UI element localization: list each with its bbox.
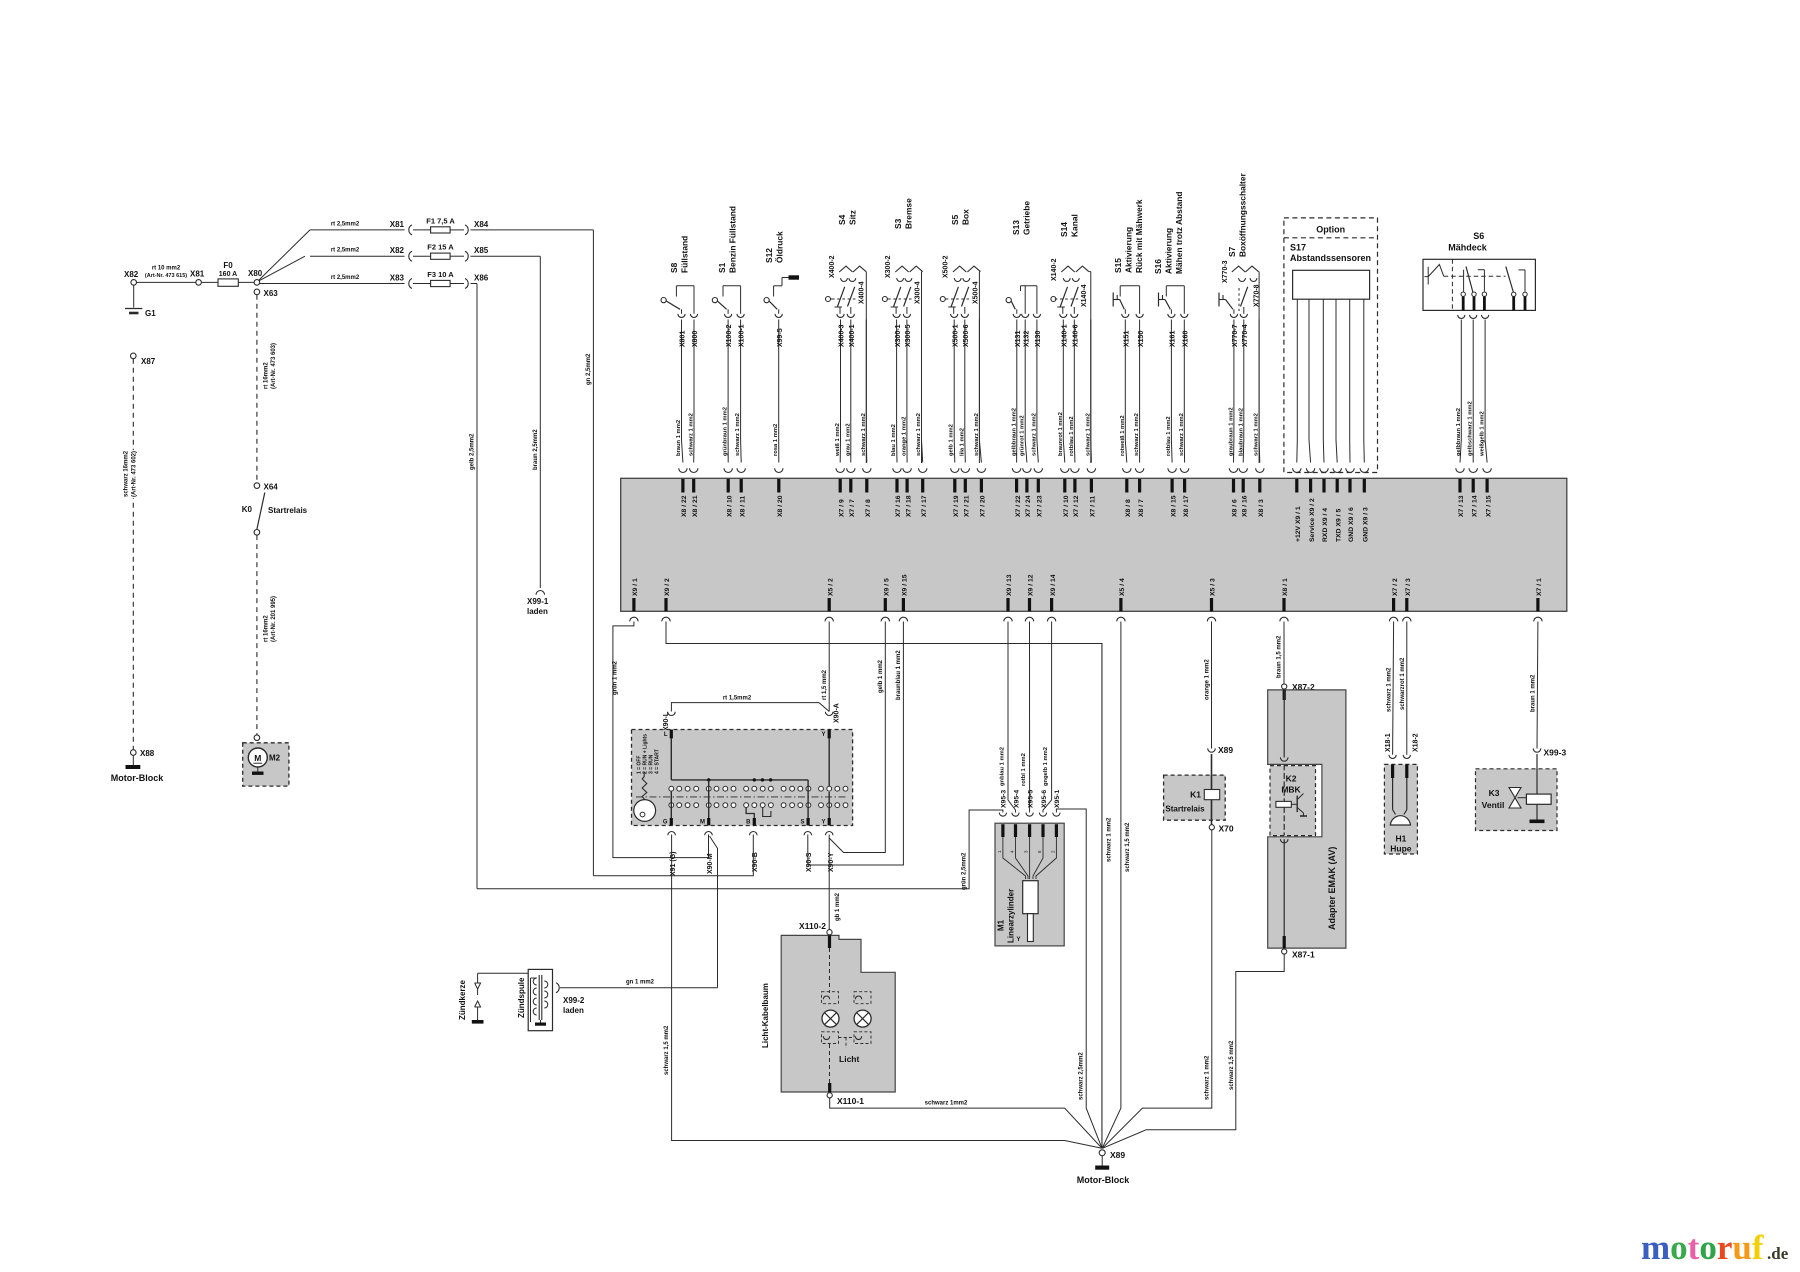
ignition internal B link — [746, 808, 754, 818]
lamp L2 — [854, 1010, 871, 1027]
pin X9/12 bottom of control unit — [1028, 598, 1031, 611]
wire schwarz 1 mm2 down to pin — [1037, 320, 1038, 463]
ignition contact lower — [706, 803, 711, 808]
wire X5/4 to X89 schwarz 1,5mm2 — [1102, 622, 1121, 1149]
svg-text:(Art-Nr. 473 602): (Art-Nr. 473 602) — [132, 451, 138, 497]
svg-text:rotweiß 1 mm2: rotweiß 1 mm2 — [1120, 415, 1126, 456]
pin X8/20 top of control unit — [775, 468, 783, 472]
svg-text:Aktivierung: Aktivierung — [1124, 227, 1134, 273]
S6 divider dashed — [1451, 259, 1453, 310]
wire gelb 1 mm2 down to pin — [953, 320, 956, 463]
connector X70 — [1209, 825, 1214, 830]
svg-text:X7 / 7: X7 / 7 — [849, 499, 856, 517]
svg-text:Getriebe: Getriebe — [1022, 201, 1032, 235]
ignition bus junction — [769, 778, 772, 781]
ignition contact upper — [669, 786, 674, 791]
M1 internal wires — [1003, 837, 1026, 879]
pin GND X9/3 top of control unit — [1360, 468, 1368, 472]
svg-text:X500-6: X500-6 — [963, 324, 970, 347]
svg-text:Hupe: Hupe — [1390, 844, 1412, 854]
wire weißgelb 1 mm2 down to pin — [1485, 320, 1487, 463]
svg-text:Startrelais: Startrelais — [1165, 805, 1205, 814]
svg-text:X87-1: X87-1 — [1292, 950, 1315, 960]
pin X7/19 top of control unit — [951, 468, 959, 472]
pin X7/20 top of control unit — [977, 468, 985, 472]
wire K0-M2 rt 16mm2 dashed — [256, 535, 258, 735]
actuator M1 box — [995, 823, 1064, 946]
wire X7/3 to X18-2 schwarzrot — [1406, 622, 1408, 755]
svg-text:X18-1: X18-1 — [1385, 733, 1392, 752]
svg-text:X7 / 3: X7 / 3 — [1405, 578, 1412, 596]
svg-text:Füllstand: Füllstand — [680, 236, 690, 273]
svg-text:G: G — [663, 820, 668, 826]
svg-text:X500-1: X500-1 — [952, 324, 959, 347]
ignition contact lower — [769, 803, 774, 808]
svg-text:Motor-Block: Motor-Block — [1077, 1175, 1130, 1185]
pin X9/5 bottom of control unit — [884, 598, 887, 611]
wire X95-1 ground schwarz 2,5mm2 — [1056, 809, 1102, 1148]
connector X82 — [131, 280, 137, 286]
pin X8/16 top of control unit — [1239, 468, 1247, 472]
pin RXD X9/4 top of control unit — [1320, 468, 1328, 472]
svg-text:X64: X64 — [264, 483, 279, 492]
svg-text:schwarz 1mm2: schwarz 1mm2 — [925, 1101, 968, 1107]
connector X90-L — [668, 712, 676, 716]
svg-text:X82: X82 — [124, 270, 139, 279]
svg-text:Option: Option — [1316, 225, 1345, 235]
svg-text:Bremse: Bremse — [904, 198, 914, 229]
svg-text:M1: M1 — [997, 919, 1006, 931]
pin X7/16 top of control unit — [893, 468, 901, 472]
svg-text:4 = START: 4 = START — [655, 749, 661, 774]
svg-text:(Art-Nr. 473 615): (Art-Nr. 473 615) — [145, 273, 187, 279]
svg-text:X130: X130 — [1035, 331, 1042, 347]
adapter EMAK box — [1268, 690, 1346, 948]
svg-text:braunrot 1 mm2: braunrot 1 mm2 — [1058, 412, 1064, 456]
svg-text:Boxöffnungsschalter: Boxöffnungsschalter — [1238, 173, 1248, 257]
wire X90-L to X90-A rt 1,5mm2 — [671, 703, 829, 712]
S6 connector — [1482, 315, 1489, 319]
ignition pin L — [670, 730, 673, 739]
svg-text:schwarz 1 mm2: schwarz 1 mm2 — [735, 413, 741, 456]
wire X99-2 gn 1mm2 — [560, 987, 718, 989]
svg-text:X85: X85 — [474, 246, 489, 255]
wire gelbbraun 1 mm2 down to pin — [1016, 320, 1018, 463]
pin X7/12 top of control unit — [1071, 468, 1079, 472]
svg-text:X99-5: X99-5 — [777, 328, 784, 347]
svg-text:schwarz 2,5mm2: schwarz 2,5mm2 — [1079, 1052, 1085, 1100]
svg-text:X7 / 20: X7 / 20 — [980, 495, 987, 517]
svg-text:L: L — [664, 732, 668, 738]
wire braun 2,5mm2 from X85 down — [539, 256, 541, 588]
mower deck box S6 — [1423, 259, 1535, 310]
svg-text:M: M — [700, 820, 705, 826]
ignition pin Y top — [828, 730, 831, 739]
ignition switch box — [632, 730, 853, 826]
S6 pin — [1524, 297, 1527, 311]
wire grünbraun 1 mm2 down to pin — [727, 320, 729, 463]
svg-text:weiß 1 mm2: weiß 1 mm2 — [835, 423, 841, 457]
wire X7/2 to X18-1 schwarz 1mm2 — [1393, 622, 1394, 755]
pin X8/8 top of control unit — [1123, 468, 1131, 472]
wire schwarz 1 mm2 down to pin — [740, 320, 743, 463]
svg-text:M2: M2 — [269, 754, 281, 763]
svg-text:Rück mit Mähwerk: Rück mit Mähwerk — [1134, 199, 1144, 273]
svg-text:schwarz 1 mm2: schwarz 1 mm2 — [1387, 667, 1393, 712]
svg-text:rotblau 1 mm2: rotblau 1 mm2 — [1166, 416, 1172, 456]
wire through K1 — [1211, 754, 1213, 825]
svg-text:X90-S: X90-S — [806, 852, 813, 872]
connector X18-1 — [1389, 755, 1396, 759]
connector X90-Y — [825, 832, 833, 836]
svg-text:X801: X801 — [680, 331, 687, 347]
wire lila 1 mm2 down to pin — [964, 320, 967, 463]
wire X9/2 ground to X89 — [666, 622, 1102, 1149]
ignition contact upper — [843, 786, 848, 791]
ground Motor-Block left — [132, 755, 134, 765]
svg-text:B: B — [746, 820, 751, 826]
ignition contact lower — [835, 803, 840, 808]
svg-text:X770-4: X770-4 — [1242, 324, 1249, 347]
ignition contact upper — [723, 786, 728, 791]
svg-text:X8 / 16: X8 / 16 — [1241, 495, 1248, 517]
connector X87 — [131, 353, 137, 359]
ignition contact lower — [843, 803, 848, 808]
pin GND X9/6 top of control unit — [1346, 468, 1354, 472]
wire schwarz 1 mm2 down to pin — [922, 320, 923, 463]
svg-text:X7 / 23: X7 / 23 — [1037, 495, 1044, 517]
svg-text:grau 1 mm2: grau 1 mm2 — [845, 423, 851, 456]
fuse row F1 7,5A X81-X84 — [310, 229, 405, 231]
wire X91 G down schwarz 1,5mm2 — [672, 835, 1102, 1149]
ignition coil windings — [538, 975, 540, 1020]
wire X87-1 to X89 schwarz 1,5mm2 — [1102, 954, 1284, 1148]
svg-text:X160: X160 — [1183, 331, 1190, 347]
svg-text:schwarz 16mm2: schwarz 16mm2 — [124, 450, 130, 497]
pin X8/22 top of control unit — [679, 468, 687, 472]
svg-text:laden: laden — [527, 607, 548, 616]
wire X80 to row3 — [260, 283, 310, 285]
sensor block S17 — [1293, 270, 1370, 299]
pin X7/2 bottom of control unit — [1392, 598, 1395, 611]
wire rosa 1 mm2 down to pin — [778, 320, 780, 463]
svg-text:X86: X86 — [474, 274, 489, 283]
wire schwarz 1 mm2 down to pin — [1183, 320, 1185, 463]
pin X8/21 top of control unit — [690, 468, 698, 472]
svg-text:laden: laden — [563, 1006, 584, 1015]
wire gruen 2,5mm2 from X84 down — [592, 230, 594, 876]
svg-text:Mähen trotz Abstand: Mähen trotz Abstand — [1174, 191, 1184, 274]
svg-text:lila 1 mm2: lila 1 mm2 — [959, 428, 965, 456]
ignition contact upper — [835, 786, 840, 791]
pin X9/1 bottom of control unit — [632, 598, 635, 611]
svg-text:X150: X150 — [1138, 331, 1145, 347]
svg-text:X7 / 17: X7 / 17 — [921, 495, 928, 517]
svg-text:X83: X83 — [390, 274, 405, 283]
relay K1 coil — [1204, 790, 1219, 800]
wire gelb to M1 X95-3 — [477, 810, 1003, 889]
connector X63 — [254, 289, 260, 295]
svg-text:X7 / 16: X7 / 16 — [895, 495, 902, 517]
ignition pin B — [753, 818, 756, 826]
wire adapter top segment — [1283, 690, 1286, 700]
svg-text:X9 / 1: X9 / 1 — [632, 578, 639, 596]
connector X99-3 — [1533, 748, 1541, 752]
svg-text:X9 / 13: X9 / 13 — [1006, 574, 1013, 596]
ignition contact upper — [714, 786, 719, 791]
svg-text:Y: Y — [821, 732, 825, 738]
svg-text:Benzin Füllstand: Benzin Füllstand — [728, 206, 738, 273]
relay K1 box — [1164, 775, 1226, 820]
svg-text:Sitz: Sitz — [848, 210, 858, 225]
pin X7/3 bottom of control unit — [1405, 598, 1408, 611]
pin X7/15 top of control unit — [1483, 468, 1491, 472]
wire grau 1 mm2 down to pin — [850, 320, 852, 463]
svg-text:X99-2: X99-2 — [563, 996, 585, 1005]
pin Service X9/2 top of control unit — [1306, 468, 1314, 472]
svg-text:S12: S12 — [764, 248, 774, 263]
S6 switch 2 branch — [1478, 269, 1485, 271]
ignition contact lower — [806, 803, 811, 808]
wire X87-X88 schwarz 16mm2 dashed — [132, 359, 134, 750]
wire S17 sensor to control unit — [1336, 299, 1337, 462]
ignition contact upper — [706, 786, 711, 791]
ignition contact upper — [744, 786, 749, 791]
wire graubraun 1 mm2 down to pin — [1233, 320, 1235, 463]
svg-text:gngelb 1 mm2: gngelb 1 mm2 — [1043, 747, 1049, 786]
ignition bus junction — [753, 778, 756, 781]
svg-text:X400-3: X400-3 — [839, 324, 846, 347]
pin X5/2 bottom of control unit — [828, 598, 831, 611]
svg-text:S13: S13 — [1011, 220, 1021, 235]
svg-text:F3 10 A: F3 10 A — [427, 270, 454, 279]
connector X87-2 — [1282, 684, 1287, 689]
connector K2 lower — [1280, 839, 1288, 843]
ignition contact lower — [694, 803, 699, 808]
M1 pin — [1014, 824, 1017, 837]
svg-text:160 A: 160 A — [219, 271, 237, 278]
svg-text:X88: X88 — [140, 749, 155, 758]
pin X7/10 top of control unit — [1061, 468, 1069, 472]
S6 coupling dash-dot — [1444, 275, 1506, 277]
svg-text:X7 / 14: X7 / 14 — [1471, 495, 1478, 517]
connector X64 — [254, 483, 260, 489]
pin X7/11 top of control unit — [1087, 468, 1095, 472]
svg-text:F0: F0 — [223, 261, 233, 270]
ignition contact upper — [798, 786, 803, 791]
ignition contact upper — [752, 786, 757, 791]
battery G1 — [125, 308, 142, 310]
svg-text:(Art-Nr. 473 603): (Art-Nr. 473 603) — [271, 343, 277, 389]
lamp L1 — [822, 1010, 839, 1027]
wire X90-M to X99-2 — [710, 836, 718, 988]
svg-text:X400-1: X400-1 — [849, 324, 856, 347]
ignition contact lower — [723, 803, 728, 808]
ignition pin G — [670, 818, 673, 826]
pin X8/17 top of control unit — [1180, 468, 1188, 472]
pin TXD X9/5 top of control unit — [1333, 468, 1341, 472]
svg-text:braun 1 mm2: braun 1 mm2 — [676, 420, 682, 456]
pin X9/14 bottom of control unit — [1050, 598, 1053, 611]
M1 pin — [1055, 824, 1058, 837]
svg-text:GND X9 / 6: GND X9 / 6 — [1348, 507, 1355, 542]
wire weiß 1 mm2 down to pin — [839, 320, 841, 463]
ground M2 — [257, 767, 259, 772]
pin X9/15 bottom of control unit — [902, 598, 905, 611]
svg-text:Y: Y — [821, 820, 825, 826]
lamp connector dashes upper — [822, 992, 839, 1004]
M1 pin — [1028, 824, 1031, 837]
svg-text:F1 7,5 A: F1 7,5 A — [426, 216, 455, 225]
wire blaubraun 1 mm2 down to pin — [1242, 320, 1245, 463]
svg-text:X7 / 13: X7 / 13 — [1458, 495, 1465, 517]
light harness box Licht-Kabelbaum — [781, 935, 895, 1092]
svg-text:orange 1 mm2: orange 1 mm2 — [901, 417, 907, 456]
ignition contact lower — [744, 803, 749, 808]
ignition contact lower — [685, 803, 690, 808]
ignition contact lower — [827, 803, 832, 808]
svg-text:X7 / 12: X7 / 12 — [1073, 495, 1080, 517]
svg-text:X770-7: X770-7 — [1232, 324, 1239, 347]
pin X8/6 top of control unit — [1229, 468, 1237, 472]
ignition contact lower — [798, 803, 803, 808]
relay K2 MBK box — [1270, 766, 1316, 836]
svg-text:X8 / 15: X8 / 15 — [1170, 495, 1177, 517]
svg-text:Licht: Licht — [839, 1054, 859, 1064]
ignition contact lower — [669, 803, 674, 808]
svg-text:Linearzylinder: Linearzylinder — [1007, 889, 1016, 943]
wire X9/12 to X95-5 — [1029, 622, 1031, 813]
pin X7/7 top of control unit — [847, 468, 855, 472]
wire schwarz 1 mm2 down to pin — [1139, 320, 1141, 463]
svg-text:schwarz 1 mm2: schwarz 1 mm2 — [1031, 413, 1037, 456]
svg-text:X7 / 18: X7 / 18 — [905, 495, 912, 517]
svg-text:grün 1 mm2: grün 1 mm2 — [612, 660, 618, 695]
connector X90-M — [705, 832, 713, 836]
svg-text:braun 1,5 mm2: braun 1,5 mm2 — [1277, 635, 1283, 678]
svg-text:F2 15 A: F2 15 A — [427, 243, 454, 252]
ignition contact lower — [819, 803, 824, 808]
svg-text:grünrot 1 mm2: grünrot 1 mm2 — [1020, 415, 1026, 456]
control unit box — [621, 478, 1567, 611]
pin X7/21 top of control unit — [961, 468, 969, 472]
svg-text:X400-2: X400-2 — [829, 255, 836, 278]
svg-text:X7 / 1: X7 / 1 — [1536, 578, 1543, 596]
svg-text:grünbraun 1 mm2: grünbraun 1 mm2 — [723, 407, 729, 456]
pin X7/8 top of control unit — [863, 468, 871, 472]
svg-text:X90-M: X90-M — [707, 853, 714, 874]
svg-text:rt 2,5mm2: rt 2,5mm2 — [331, 248, 360, 254]
pin X7/18 top of control unit — [903, 468, 911, 472]
wire S17 sensor to control unit — [1363, 299, 1366, 462]
ignition contact upper — [731, 786, 736, 791]
pin X7/1 bottom of control unit — [1536, 598, 1539, 611]
svg-text:X7 / 19: X7 / 19 — [953, 495, 960, 517]
ignition bus junction — [707, 778, 710, 781]
svg-text:gelb 2,5mm2: gelb 2,5mm2 — [470, 433, 476, 470]
svg-text:gnblau 1 mm2: gnblau 1 mm2 — [1000, 747, 1006, 786]
ignition contact lower — [714, 803, 719, 808]
svg-text:X131: X131 — [1015, 331, 1022, 347]
pin X8/1 bottom of control unit — [1282, 598, 1285, 611]
svg-text:Startrelais: Startrelais — [268, 506, 308, 515]
svg-text:K1: K1 — [1190, 790, 1201, 800]
svg-text:Box: Box — [961, 209, 971, 225]
svg-text:X7 / 24: X7 / 24 — [1025, 495, 1032, 517]
svg-text:S7: S7 — [1227, 246, 1237, 257]
ignition contact upper — [781, 786, 786, 791]
ignition contact lower — [781, 803, 786, 808]
wire braun 1 mm2 down to pin — [682, 320, 683, 463]
svg-text:X8 / 10: X8 / 10 — [726, 495, 733, 517]
svg-text:schwarz 1,5 mm2: schwarz 1,5 mm2 — [664, 1025, 670, 1075]
starter motor M2 box — [243, 743, 289, 786]
svg-text:Adapter EMAK (AV): Adapter EMAK (AV) — [1327, 847, 1337, 930]
svg-text:X90-A: X90-A — [834, 703, 841, 723]
svg-text:(Art-Nr. 201 995): (Art-Nr. 201 995) — [271, 596, 277, 642]
svg-text:H1: H1 — [1395, 834, 1406, 844]
svg-text:gelb 1 mm2: gelb 1 mm2 — [949, 424, 955, 456]
fuse row F3 10A X83-X86 — [310, 283, 405, 285]
wire braunrot 1 mm2 down to pin — [1063, 320, 1065, 463]
svg-text:gelbbraun 1 mm2: gelbbraun 1 mm2 — [1456, 408, 1462, 456]
svg-text:Zündspule: Zündspule — [517, 977, 526, 1018]
svg-text:gelb 1 mm2: gelb 1 mm2 — [878, 659, 884, 693]
svg-text:X63: X63 — [264, 289, 279, 298]
wire schwarz 1 mm2 down to pin — [1258, 320, 1261, 463]
S6 switch 3 — [1506, 267, 1514, 294]
svg-text:S: S — [800, 820, 804, 826]
ignition contact lower — [760, 803, 765, 808]
svg-text:rotblau 1 mm2: rotblau 1 mm2 — [1069, 416, 1075, 456]
S6 pin — [1483, 297, 1486, 311]
svg-text:gb 1 mm2: gb 1 mm2 — [835, 892, 841, 921]
M1 pin — [1041, 824, 1044, 837]
svg-text:braunblau 1 mm2: braunblau 1 mm2 — [896, 650, 902, 700]
svg-text:.de: .de — [1767, 1244, 1789, 1263]
wire gelb 2,5mm2 from X86 down — [476, 284, 478, 889]
svg-text:X9 / 2: X9 / 2 — [664, 578, 671, 596]
wire adapter lower segment — [1283, 839, 1285, 946]
wire rotblau 1 mm2 down to pin — [1073, 320, 1076, 463]
wire spark plug to coil — [478, 972, 529, 974]
wire X63-X64 rt 16mm2 dashed — [256, 295, 258, 483]
svg-text:X8 / 21: X8 / 21 — [692, 495, 699, 517]
wire X9/14 to X95-6 gngelb — [1043, 622, 1052, 813]
svg-text:S4: S4 — [837, 214, 847, 225]
S6 connector — [1470, 315, 1477, 319]
svg-text:weißgelb 1 mm2: weißgelb 1 mm2 — [1480, 411, 1486, 457]
wire grünrot 1 mm2 down to pin — [1025, 320, 1027, 463]
wire rotblau 1 mm2 down to pin — [1170, 320, 1173, 463]
svg-text:X8 / 6: X8 / 6 — [1232, 499, 1239, 517]
wire X5/2 to X90-A rt 1,5mm2 — [828, 622, 830, 712]
svg-text:X500-4: X500-4 — [972, 281, 979, 304]
connector X18-2 — [1403, 755, 1410, 759]
svg-text:rt 16mm2: rt 16mm2 — [264, 362, 270, 389]
pin X9/2 bottom of control unit — [664, 598, 667, 611]
svg-text:Y: Y — [1016, 937, 1020, 943]
svg-text:X5 / 2: X5 / 2 — [827, 578, 834, 596]
svg-text:Ventil: Ventil — [1482, 800, 1505, 810]
svg-text:X770-8: X770-8 — [1254, 284, 1261, 307]
svg-text:X8 / 1: X8 / 1 — [1282, 578, 1289, 596]
wire schwarz 1 mm2 down to pin — [979, 320, 981, 463]
switch K0 Startrelais — [257, 493, 265, 530]
watermark motoruf.de — [1641, 1228, 1789, 1267]
svg-text:grün 2,5mm2: grün 2,5mm2 — [962, 852, 968, 890]
valve K3 box — [1476, 769, 1558, 831]
